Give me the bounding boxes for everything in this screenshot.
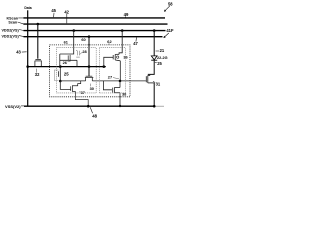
wire Q30 right leg to Q31 gate bbox=[92, 80, 146, 82]
svg-text:32: 32 bbox=[35, 72, 40, 77]
dashed box 62 bbox=[99, 48, 125, 93]
wire VDD1 drop down bbox=[88, 37, 90, 77]
wire leader 47 bbox=[135, 37, 138, 41]
wire leader arrow 41F bbox=[165, 33, 169, 37]
svg-text:38: 38 bbox=[122, 91, 127, 96]
wire leader KScan bbox=[18, 17, 23, 19]
wire leader 21 bbox=[156, 50, 160, 52]
wire Q31 source down to VSS bbox=[153, 83, 155, 106]
wire LED anode bbox=[153, 31, 155, 56]
svg-text:22-2G: 22-2G bbox=[157, 56, 168, 60]
node junction dot node-gate36 bbox=[103, 65, 106, 68]
svg-text:30: 30 bbox=[90, 86, 94, 91]
LED D22 triangle bbox=[151, 56, 157, 60]
svg-text:21: 21 bbox=[160, 48, 165, 53]
wire leader VDD1 bbox=[19, 36, 24, 37]
svg-text:43: 43 bbox=[16, 50, 21, 55]
svg-text:VDD2(VS): VDD2(VS) bbox=[1, 28, 19, 32]
svg-text:41F: 41F bbox=[166, 28, 174, 33]
wire leader 37 bbox=[79, 90, 81, 93]
wire gate36 to node bbox=[104, 57, 113, 66]
wire leader 28 bbox=[80, 52, 83, 54]
node junction dot VDD2 drop right bbox=[121, 29, 124, 32]
wire leader 26 bbox=[67, 60, 70, 63]
wire leader 32 bbox=[35, 69, 37, 73]
node junction dot node-t25 bbox=[59, 65, 62, 68]
wire leader VDD2 bbox=[19, 30, 24, 31]
svg-text:60: 60 bbox=[81, 37, 85, 42]
wire leader Scan bbox=[18, 22, 24, 24]
transistor Q37 bbox=[71, 81, 81, 92]
svg-text:31: 31 bbox=[156, 81, 161, 86]
svg-text:58: 58 bbox=[168, 1, 173, 6]
wire gate of Q38 bbox=[103, 81, 112, 90]
wire from t25 bottom to Q30 left leg bbox=[60, 80, 85, 82]
wire scan line 45 KScan bbox=[23, 17, 165, 19]
wire leader 43 bbox=[22, 51, 27, 53]
wire leader 31 bbox=[153, 81, 155, 82]
wire leader 49 bbox=[125, 16, 127, 17]
node junction dot data-node wire bbox=[26, 65, 29, 68]
svg-text:36: 36 bbox=[123, 54, 128, 59]
svg-text:28: 28 bbox=[82, 49, 87, 54]
wire power line 41F VDD1 bbox=[24, 36, 163, 38]
svg-text:25: 25 bbox=[64, 71, 69, 76]
svg-text:49: 49 bbox=[124, 12, 129, 17]
node junction dot VDD2-LED bbox=[153, 29, 156, 32]
node junction dot t25 bottom bbox=[59, 80, 62, 83]
wire gate37 from node dot bbox=[60, 81, 70, 89]
wire leader 45 bbox=[53, 13, 55, 17]
wire power line 48 VSS bbox=[24, 105, 155, 107]
svg-text:37: 37 bbox=[81, 90, 85, 95]
dashed box 61 bbox=[57, 48, 97, 93]
wire leader 30 bbox=[90, 84, 92, 87]
svg-text:62: 62 bbox=[107, 39, 112, 44]
wire storage node horizontal bbox=[28, 66, 106, 68]
node junction dot node-v89 bbox=[88, 65, 91, 68]
wire scan line 42 Scan bbox=[23, 23, 167, 25]
wire LED cathode down bbox=[148, 60, 154, 74]
node junction dot VDD1 drop bbox=[88, 35, 91, 38]
transistor Q26 bbox=[60, 54, 77, 67]
svg-text:Data: Data bbox=[24, 6, 31, 10]
wire transistor 27 vertical bbox=[119, 61, 121, 81]
svg-text:27: 27 bbox=[108, 75, 112, 80]
transistor Q32 bbox=[35, 59, 42, 66]
node junction dot gate wire bbox=[119, 80, 122, 83]
svg-text:25: 25 bbox=[157, 61, 162, 66]
wire leader 25b bbox=[155, 61, 157, 64]
svg-text:45: 45 bbox=[51, 8, 56, 13]
node junction dot scan-gate32 bbox=[37, 23, 40, 26]
wire leader arrow 58 bbox=[165, 6, 170, 11]
dashed box 60 bbox=[50, 45, 130, 97]
wire VDD2 drop to transistor 36 bbox=[119, 31, 122, 55]
wire power line VDD2 bbox=[24, 30, 166, 32]
wire gate of transistor 32 bbox=[37, 24, 39, 59]
svg-text:61: 61 bbox=[64, 40, 69, 45]
transistor Q31 bbox=[146, 74, 154, 83]
svg-text:48: 48 bbox=[92, 113, 97, 118]
wire leader 48 bbox=[90, 107, 92, 113]
wire leader 62 bbox=[108, 43, 110, 44]
wire VSS line light extension bbox=[155, 105, 164, 107]
node junction dot VSS-right bbox=[153, 105, 156, 108]
svg-text:47: 47 bbox=[133, 41, 138, 46]
transistor Q38 bbox=[113, 81, 120, 106]
svg-text:42: 42 bbox=[64, 9, 69, 14]
svg-text:Scan: Scan bbox=[8, 20, 18, 24]
node junction dot VDD2 drop left bbox=[73, 29, 76, 32]
node junction dot VSS-left bbox=[87, 105, 90, 108]
wire leader 42 bbox=[66, 14, 68, 23]
transistor Q25 bbox=[54, 67, 60, 81]
wire leader 27 bbox=[113, 78, 119, 79]
wire data line 43 vertical bbox=[27, 10, 29, 106]
svg-text:VDD1(VS): VDD1(VS) bbox=[1, 35, 19, 39]
node junction dot VSS-tD bbox=[119, 105, 121, 107]
svg-text:VSS(V2): VSS(V2) bbox=[5, 104, 21, 109]
transistor Q36 bbox=[113, 54, 120, 61]
wire leader VSS bbox=[21, 105, 25, 107]
LED D22 cathode bar bbox=[151, 59, 157, 61]
wire Q37 drain down to VSS bbox=[75, 91, 88, 106]
transistor Q30 bbox=[85, 76, 93, 81]
wire VDD2 drop to transistor 26 bbox=[60, 31, 74, 54]
capacitor C28 bbox=[76, 51, 80, 58]
